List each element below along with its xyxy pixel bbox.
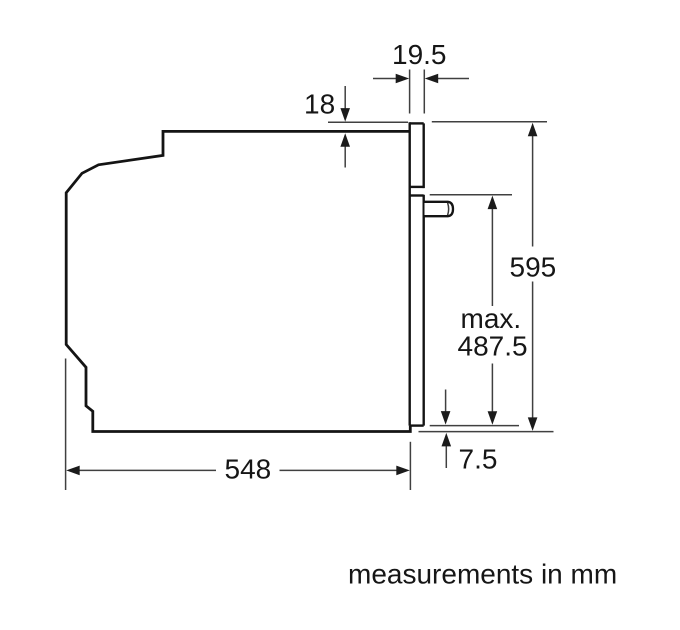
front panel right edge upper (423, 123, 425, 188)
extension line 18 (panel top, left side) (328, 121, 408, 123)
arrowhead 595 up (528, 123, 538, 137)
arrowhead 548 right (396, 466, 410, 476)
svg-text:measurements in mm: measurements in mm (348, 559, 617, 590)
extension line 19.5 right (423, 70, 425, 114)
dimension line 19.5 right segment (437, 78, 469, 80)
extension line 548 right (409, 442, 411, 490)
dimension line 19.5 left segment (373, 78, 397, 80)
arrowhead 548 left (66, 466, 80, 476)
arrow shaft 18 upper (344, 86, 346, 110)
arrowhead 595 down (528, 417, 538, 431)
dimension line max487.5 upper segment (491, 209, 493, 306)
extension line 595 bottom (419, 431, 554, 433)
front panel top edge (410, 122, 424, 124)
arrowhead max487.5 up (488, 196, 498, 210)
svg-text:7.5: 7.5 (459, 444, 498, 475)
extension line 19.5 left (409, 70, 411, 114)
panel seam line upper (410, 186, 424, 188)
dimension line 548 left segment (78, 469, 216, 471)
svg-text:595: 595 (510, 252, 557, 283)
arrowhead 7.5 down (441, 411, 451, 425)
svg-text:18: 18 (304, 89, 335, 120)
dimension line 548 right segment (280, 469, 399, 471)
arrowhead 18 up (340, 133, 350, 147)
arrowhead 7.5 up (442, 433, 452, 447)
dimension line max487.5 lower segment (491, 364, 493, 413)
arrow shaft 18 lower (344, 146, 346, 168)
arrowhead 18 down (340, 108, 350, 122)
arrowhead 19.5 right (points left) (425, 74, 439, 84)
front panel right edge lower (423, 195, 425, 426)
extension line max487.5 top (430, 194, 512, 196)
svg-text:487.5: 487.5 (458, 331, 528, 362)
panel seam line lower (410, 194, 424, 196)
svg-text:548: 548 (225, 454, 272, 485)
arrowhead 19.5 left (points right) (396, 74, 410, 84)
arrowhead max487.5 down (488, 411, 498, 425)
front panel bottom edge (door bottom) (410, 424, 424, 426)
oven body outline (66, 131, 410, 431)
svg-text:19.5: 19.5 (392, 39, 447, 70)
extension line 595 top (432, 121, 547, 123)
knob end arc (448, 203, 449, 215)
extension line 548 left (65, 359, 67, 491)
control knob (425, 202, 454, 216)
dimension line 595 lower segment (532, 282, 534, 419)
arrow shaft 7.5 lower (445, 446, 447, 468)
dimension line 595 upper segment (532, 136, 534, 247)
front panel left edge (409, 122, 411, 425)
extension line max487.5 bottom (door bottom) (430, 425, 519, 427)
arrow shaft 7.5 upper (445, 390, 447, 413)
svg-text:max.: max. (461, 303, 522, 334)
